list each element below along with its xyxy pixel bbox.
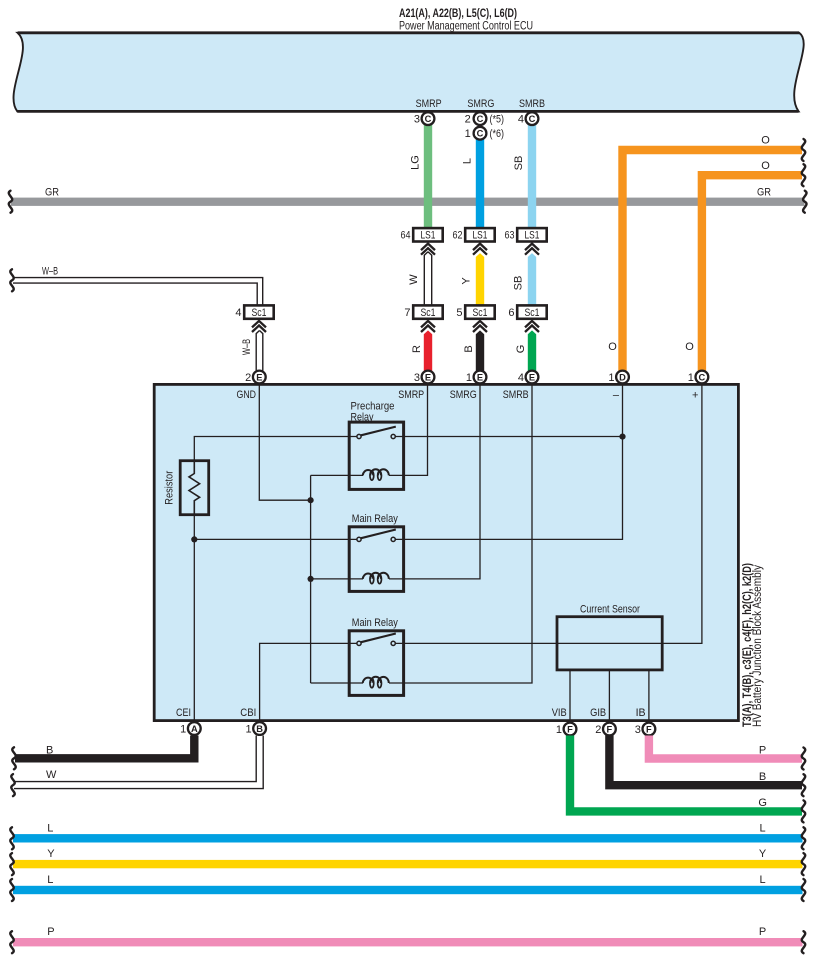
svg-text:LS1: LS1	[473, 230, 488, 242]
pin 2 C (*5)	[474, 112, 487, 125]
wire precharge switch right to D line	[395, 436, 622, 438]
pin 3 E (SMRP)	[422, 371, 435, 384]
wire main relay1 switch left	[194, 538, 357, 540]
connector 63 LS1	[517, 228, 547, 241]
wire LG (SMRP) vertical	[424, 124, 432, 229]
svg-text:C: C	[699, 372, 706, 382]
ECU band top border	[18, 31, 800, 34]
wire main relay2 switch through sensor to pin C	[395, 384, 702, 643]
svg-text:1: 1	[466, 372, 472, 384]
pin 1 F (VIB)	[564, 723, 577, 736]
main relay 1 coil	[363, 573, 389, 579]
svg-text:2: 2	[465, 114, 471, 126]
svg-text:Y: Y	[460, 277, 472, 285]
svg-text:SB: SB	[513, 156, 525, 171]
wire P pink band	[13, 938, 803, 946]
shield chevrons under 5 Sc1	[473, 321, 487, 332]
wire SMRB stub to main relay2 coil	[389, 384, 532, 683]
wire SB (SMRB) vertical	[528, 124, 536, 229]
precharge relay box	[349, 422, 403, 489]
wire IB stub	[648, 670, 650, 721]
svg-text:63: 63	[505, 230, 515, 242]
connector 7 Sc1	[413, 305, 443, 318]
svg-text:C: C	[477, 114, 484, 124]
O tear upper	[802, 139, 805, 161]
wire L blue band 1	[13, 834, 803, 842]
wire SB (63 LS1 to 6 Sc1)	[528, 253, 536, 306]
connector 62 LS1	[465, 228, 495, 241]
main relay 2 switch	[361, 634, 396, 643]
W tear left	[11, 774, 14, 796]
svg-text:VIB: VIB	[552, 707, 567, 719]
svg-text:Y: Y	[47, 848, 55, 860]
pin 4 C (SMRB)	[526, 112, 539, 125]
wire resistor bottom to CEI	[193, 514, 195, 721]
svg-text:3: 3	[414, 372, 420, 384]
svg-text:SMRP: SMRP	[398, 389, 424, 401]
svg-text:C: C	[425, 114, 432, 124]
connector 5 Sc1	[465, 305, 495, 318]
svg-text:E: E	[256, 372, 262, 382]
svg-text:O: O	[761, 160, 770, 172]
svg-text:F: F	[646, 724, 652, 734]
svg-text:6: 6	[508, 307, 514, 319]
svg-text:F: F	[567, 724, 573, 734]
block body	[154, 384, 738, 720]
shield chevrons under 6 Sc1	[525, 321, 539, 332]
svg-text:SMRP: SMRP	[416, 98, 442, 110]
svg-text:W: W	[408, 274, 420, 285]
connector 4 Sc1	[244, 305, 274, 318]
svg-text:2: 2	[595, 724, 601, 736]
svg-text:SMRB: SMRB	[503, 389, 529, 401]
svg-text:L: L	[461, 158, 473, 164]
main relay 1 switch	[361, 530, 396, 539]
svg-text:–: –	[613, 389, 620, 401]
svg-text:GR: GR	[45, 187, 59, 199]
shield chevrons under 7 Sc1	[421, 321, 435, 332]
svg-text:GND: GND	[237, 389, 257, 401]
svg-text:SMRG: SMRG	[467, 98, 494, 110]
svg-text:IB: IB	[636, 707, 646, 719]
svg-text:E: E	[477, 372, 483, 382]
svg-text:W–B: W–B	[42, 265, 58, 277]
wire O upper: horizontal + vertical to pin D	[623, 150, 803, 371]
svg-text:Sc1: Sc1	[421, 307, 436, 319]
pin 2 F (GIB)	[603, 723, 616, 736]
svg-text:Sc1: Sc1	[252, 307, 267, 319]
svg-text:B: B	[759, 771, 766, 783]
pin 3 C (SMRP)	[422, 112, 435, 125]
svg-text:O: O	[761, 135, 770, 147]
svg-text:Sc1: Sc1	[525, 307, 540, 319]
svg-text:Resistor: Resistor	[163, 470, 175, 504]
svg-text:4: 4	[518, 114, 524, 126]
svg-text:W: W	[46, 769, 57, 781]
svg-text:LS1: LS1	[525, 230, 540, 242]
wire main relay1 coil left	[311, 578, 363, 580]
main relay 2 box	[349, 631, 403, 696]
wire W double-line (64 LS1 to 7 Sc1)	[424, 252, 431, 306]
svg-text:3: 3	[635, 724, 641, 736]
current sensor box	[557, 617, 662, 670]
junction dot resistor/CEI/relay1 switch	[191, 536, 197, 542]
wire GR gray band	[11, 198, 805, 206]
pin 3 F (IB)	[643, 723, 656, 736]
B tear left	[12, 747, 15, 769]
wire B thick black from pin A to left	[15, 736, 194, 759]
svg-text:L: L	[760, 874, 766, 886]
wire W-B double-line (4 Sc1 to pin 2 E)	[256, 331, 263, 372]
svg-text:C: C	[477, 129, 484, 139]
wire W-B double-line horizontal+down to 4 Sc1	[13, 278, 263, 306]
main relay 1 box	[349, 527, 403, 592]
ECU A21/A22/L5/L6 band body	[14, 33, 804, 112]
wire P pink from pin 3 F	[649, 736, 802, 759]
svg-text:1: 1	[608, 372, 614, 384]
svg-text:4: 4	[518, 372, 524, 384]
pin 2 E (GND)	[253, 371, 266, 384]
junction dot GND/coil bus	[308, 497, 314, 503]
svg-text:2: 2	[245, 372, 251, 384]
svg-text:1: 1	[556, 724, 562, 736]
svg-text:1: 1	[180, 723, 186, 735]
svg-text:GIB: GIB	[590, 707, 606, 719]
svg-text:B: B	[46, 745, 53, 757]
svg-text:7: 7	[404, 307, 410, 319]
O tear lower	[802, 164, 805, 186]
svg-text:1: 1	[465, 128, 471, 140]
svg-text:CEI: CEI	[176, 707, 191, 719]
GR tear right	[803, 191, 806, 213]
svg-text:A21(A), A22(B), L5(C), L6(D): A21(A), A22(B), L5(C), L6(D)	[399, 8, 517, 20]
wire Y yellow band	[13, 860, 803, 868]
connector 64 LS1	[413, 228, 443, 241]
main relay 2 coil	[363, 677, 389, 683]
svg-text:(*5): (*5)	[490, 114, 505, 126]
svg-text:W–B: W–B	[241, 339, 253, 355]
wire CBI up and over to main relay2 switch	[260, 643, 357, 720]
GR tear left	[9, 191, 12, 213]
svg-text:64: 64	[401, 230, 411, 242]
junction dot relay1 coil	[308, 576, 314, 582]
svg-text:LS1: LS1	[421, 230, 436, 242]
wire VIB stub	[569, 670, 571, 721]
svg-text:G: G	[515, 345, 527, 354]
wire SMRG stub to main relay1 coil	[389, 384, 480, 579]
svg-text:G: G	[758, 797, 767, 809]
pin 1 B (CBI)	[253, 722, 266, 735]
svg-text:B: B	[463, 345, 475, 352]
svg-text:3: 3	[414, 114, 420, 126]
svg-text:Main Relay: Main Relay	[352, 513, 398, 525]
shield chevrons under 63 LS1	[525, 244, 539, 255]
svg-text:O: O	[685, 341, 694, 353]
svg-text:1: 1	[688, 372, 694, 384]
svg-text:62: 62	[453, 230, 463, 242]
connector 6 Sc1	[517, 305, 547, 318]
resistor box	[180, 461, 209, 515]
pin 1 D (minus)	[616, 371, 629, 384]
ECU band bottom border	[17, 110, 798, 113]
svg-text:F: F	[607, 724, 613, 734]
svg-text:+: +	[692, 389, 698, 401]
pin 1 C (plus)	[696, 371, 709, 384]
svg-text:Sc1: Sc1	[473, 307, 488, 319]
wire G (6 Sc1 to pin 4 E)	[528, 330, 536, 371]
P tear right	[802, 748, 805, 770]
svg-text:5: 5	[456, 307, 462, 319]
svg-text:(*6): (*6)	[490, 128, 505, 140]
shield chevrons under 62 LS1	[473, 244, 487, 255]
svg-text:Y: Y	[759, 848, 767, 860]
svg-text:Current Sensor: Current Sensor	[580, 603, 640, 615]
svg-text:Relay: Relay	[351, 411, 374, 423]
svg-text:P: P	[759, 745, 766, 757]
wire GND stub down and over to coil bus	[259, 384, 310, 500]
svg-text:CBI: CBI	[240, 707, 256, 719]
wire precharge coil left	[311, 474, 363, 476]
svg-text:Main Relay: Main Relay	[352, 617, 398, 629]
wire L blue band 2	[13, 886, 803, 894]
svg-text:R: R	[411, 345, 423, 353]
svg-text:C: C	[529, 114, 536, 124]
shield chevrons under 4 Sc1	[252, 321, 266, 332]
pin 4 E (SMRB)	[526, 371, 539, 384]
B tear right	[802, 774, 805, 796]
svg-text:B: B	[256, 724, 263, 734]
wire Y (62 LS1 to 5 Sc1)	[476, 253, 484, 306]
junction dot precharge/D	[619, 434, 625, 440]
wire main relay2 coil left	[311, 682, 363, 684]
precharge switch contacts and blade	[361, 427, 396, 436]
svg-text:4: 4	[235, 307, 241, 319]
svg-text:L: L	[760, 822, 766, 834]
pin 1 E (SMRG)	[474, 371, 487, 384]
svg-text:O: O	[608, 341, 617, 353]
svg-text:SB: SB	[513, 276, 525, 291]
wire B (5 Sc1 to pin 1 E)	[476, 330, 484, 371]
wire GIB stub	[608, 670, 610, 721]
svg-text:GR: GR	[757, 187, 771, 199]
wire O lower: horizontal + vertical to pin C	[702, 175, 802, 371]
svg-text:Power Management Control ECU: Power Management Control ECU	[399, 21, 533, 33]
svg-text:HV Battery Junction Block Asse: HV Battery Junction Block Assembly	[752, 565, 764, 727]
wire W double-line from pin B to left	[14, 736, 263, 789]
pin 1 C (*6)	[474, 127, 487, 140]
svg-text:SMRB: SMRB	[519, 98, 545, 110]
wire SMRP stub to precharge coil	[389, 384, 428, 475]
wire L (SMRG) vertical	[476, 139, 484, 229]
shield chevrons under 64 LS1	[421, 244, 435, 255]
resistor zigzag	[189, 461, 200, 515]
G tear right	[802, 800, 805, 822]
svg-text:P: P	[47, 926, 54, 938]
wire coil bus vertical	[310, 475, 312, 683]
svg-text:P: P	[759, 926, 766, 938]
svg-text:A: A	[191, 724, 198, 734]
wire pin D stub to main relay1 switch	[395, 384, 622, 539]
W-B tear left	[10, 269, 13, 291]
svg-text:SMRG: SMRG	[450, 389, 477, 401]
precharge coil	[363, 469, 389, 475]
svg-text:L: L	[47, 822, 53, 834]
svg-text:LG: LG	[409, 155, 421, 170]
wire B black from pin 2 F	[609, 736, 802, 786]
svg-text:D: D	[619, 372, 626, 382]
wire precharge switch left to resistor top	[194, 437, 357, 462]
svg-text:1: 1	[245, 723, 251, 735]
wire R (7 Sc1 to pin 3 E)	[424, 330, 432, 371]
svg-text:E: E	[425, 372, 431, 382]
svg-text:L: L	[47, 874, 53, 886]
svg-text:E: E	[529, 372, 535, 382]
wire G green from pin 1 F	[570, 736, 802, 812]
pin 1 A (CEI)	[188, 722, 201, 735]
